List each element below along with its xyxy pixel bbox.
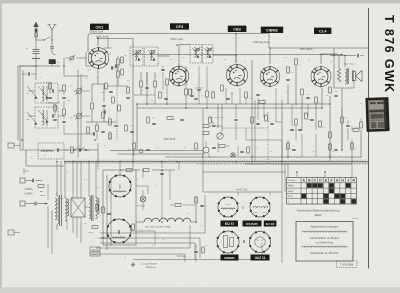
wire top rail right bbox=[296, 47, 368, 49]
wire bus drops bbox=[97, 161, 99, 170]
capacitor Cb2 bbox=[53, 118, 56, 120]
capacitor Cc2 bbox=[126, 96, 129, 98]
svg-text:1n: 1n bbox=[124, 257, 126, 259]
svg-text:3n: 3n bbox=[162, 239, 164, 241]
wire right mid bbox=[295, 66, 297, 104]
wire w1 bbox=[49, 82, 51, 94]
capacitor Cg1 bbox=[197, 88, 200, 90]
resistor Rh1 bbox=[295, 119, 298, 125]
mains plug bbox=[20, 178, 25, 183]
capacitor Ch1 bbox=[290, 128, 293, 130]
wire CK1 plate bbox=[97, 39, 99, 46]
wire x282 pair bbox=[281, 162, 283, 188]
capacitor Ca3 bbox=[226, 97, 229, 99]
resistor drop bbox=[132, 224, 135, 230]
wire bottom left verticals bbox=[47, 206, 49, 248]
wire input verticals bbox=[19, 66, 21, 150]
resistor sw3 bbox=[351, 143, 354, 149]
svg-text:160Ω: 160Ω bbox=[263, 212, 268, 214]
shielded lines box bbox=[296, 222, 353, 262]
label W08MW bbox=[221, 255, 239, 261]
wire drop B bbox=[329, 142, 331, 157]
resistor Ra7 bbox=[287, 67, 290, 73]
wire vert x147 bbox=[146, 72, 148, 104]
wire sockets frame bbox=[103, 170, 136, 245]
socket II bbox=[107, 219, 131, 243]
resistor bot1 bbox=[202, 247, 205, 253]
IF transformer 2a bbox=[190, 45, 202, 64]
label EU XI bbox=[221, 221, 239, 227]
svg-text:2n: 2n bbox=[78, 145, 80, 147]
resistor Rc2 bbox=[117, 71, 120, 77]
svg-text:Dyn.Chass.: Dyn.Chass. bbox=[344, 64, 356, 66]
wire run 2 bbox=[100, 237, 200, 239]
tube CK1 bbox=[88, 48, 109, 69]
resistor Ra2 bbox=[189, 89, 192, 95]
variable capacitor tuning 2 bbox=[76, 113, 81, 118]
svg-text:CL4: CL4 bbox=[319, 28, 327, 33]
capacitor C osc bbox=[78, 148, 80, 151]
svg-text:MW: MW bbox=[26, 119, 30, 121]
wire vert x282a bbox=[281, 100, 283, 161]
svg-text:Selbstinduktion ca. 85 pF/m: Selbstinduktion ca. 85 pF/m bbox=[310, 237, 340, 240]
svg-text:6n: 6n bbox=[182, 57, 184, 59]
wire AVC long line bbox=[88, 34, 269, 53]
svg-text:UAZ 11: UAZ 11 bbox=[255, 256, 266, 260]
resistor R7 bbox=[112, 97, 115, 103]
svg-text:„Mittel“: „Mittel“ bbox=[314, 213, 322, 217]
svg-text:1n: 1n bbox=[70, 85, 72, 87]
svg-text:1013: 1013 bbox=[88, 232, 94, 234]
resistor Ra4 bbox=[221, 85, 224, 91]
svg-text:70/80V 3mA: 70/80V 3mA bbox=[89, 29, 104, 33]
resistor Rh2 bbox=[341, 117, 344, 123]
resistor heater 2 bbox=[143, 169, 149, 172]
wire w3 bbox=[86, 65, 92, 67]
wire C/BM2 plate bbox=[269, 48, 271, 64]
socket four bbox=[250, 232, 271, 253]
resistor Rb1 bbox=[49, 83, 52, 89]
svg-text:2M: 2M bbox=[67, 100, 70, 102]
mid components bbox=[147, 117, 150, 123]
wire 8V rail bbox=[133, 259, 262, 261]
svg-text:Mittel: Mittel bbox=[288, 185, 294, 188]
resistor R6 bbox=[105, 83, 108, 89]
label KS15/25 bbox=[243, 221, 262, 227]
svg-text:1n: 1n bbox=[154, 185, 156, 187]
tube label CL4 bbox=[314, 28, 331, 34]
svg-text:Selbstindukt. ca. 220 pF/m: Selbstindukt. ca. 220 pF/m bbox=[310, 252, 338, 255]
resistor heater 1 bbox=[126, 169, 132, 172]
oscillator coils bbox=[38, 143, 64, 159]
resistor Rc3 bbox=[127, 87, 130, 93]
variable capacitor tuning 1 bbox=[76, 88, 81, 93]
wire vert x322 bbox=[321, 88, 323, 108]
capacitor Cf1 bbox=[190, 94, 193, 96]
capacitor Ch2 bbox=[346, 124, 349, 126]
left edge connector bbox=[8, 143, 14, 148]
svg-text:≈+185V: ≈+185V bbox=[98, 237, 107, 240]
svg-text:1M: 1M bbox=[230, 93, 233, 95]
svg-text:47 000 Ohm: 47 000 Ohm bbox=[212, 117, 224, 119]
resistor Ra3 bbox=[212, 92, 215, 98]
ground bottom bbox=[132, 262, 134, 264]
voltage boxes bbox=[90, 247, 100, 251]
resistor Rc1 bbox=[117, 59, 120, 65]
capacitor Cb1 bbox=[48, 96, 51, 98]
wire dashed return rail bbox=[197, 163, 368, 165]
wire w7 bbox=[162, 66, 164, 68]
svg-text:bei: bei bbox=[40, 191, 43, 193]
resistor Ra1 bbox=[159, 92, 162, 98]
wire vert pair volume bbox=[217, 104, 219, 128]
wire CK1 cathode drop bbox=[97, 68, 99, 84]
radio photo bbox=[365, 97, 389, 132]
wire w12 bbox=[257, 98, 259, 120]
IF transformer 1a bbox=[130, 47, 143, 66]
svg-text:220 V: 220 V bbox=[225, 204, 231, 206]
wire CL4 plate bbox=[320, 54, 322, 64]
IF transformer 2b bbox=[203, 45, 214, 64]
wire CB2 top bbox=[235, 54, 237, 63]
AVC dashed vertical bbox=[116, 58, 118, 140]
wire transformer drops bbox=[56, 161, 58, 196]
antenna switch bbox=[36, 39, 44, 41]
wire drop A bbox=[287, 140, 289, 157]
resistor Rf1 bbox=[185, 89, 188, 95]
wire left rail 2 bbox=[117, 153, 203, 155]
wire IF2 to CB2 bbox=[213, 54, 236, 56]
resistor sw1 bbox=[287, 143, 290, 149]
mains switch bbox=[20, 201, 25, 206]
tube CL4 bbox=[311, 67, 331, 87]
svg-text:6V 0,1A: 6V 0,1A bbox=[137, 205, 145, 208]
socket EU XI bbox=[218, 197, 238, 217]
resistor Rd1 bbox=[140, 81, 143, 87]
schematic border right bbox=[368, 8, 370, 269]
wire run 1 bbox=[100, 232, 205, 234]
volume cluster bbox=[203, 125, 209, 128]
svg-text:CK1 CF3 CL4 CB2 C/BM2: CK1 CF3 CL4 CB2 C/BM2 bbox=[145, 227, 172, 229]
wire lamp bbox=[142, 170, 144, 178]
svg-text:5n: 5n bbox=[184, 147, 186, 149]
resistor sw4 bbox=[360, 122, 363, 128]
wire under sockets bbox=[136, 185, 148, 187]
wire w8 bbox=[185, 66, 187, 89]
tube label C/BM2 bbox=[261, 27, 283, 33]
shield dashed lines bbox=[267, 112, 269, 164]
coil arrows bbox=[27, 86, 37, 98]
wire front-end bbox=[28, 90, 35, 92]
resistor column bbox=[63, 85, 66, 91]
wire IF1 to CF3 bbox=[158, 55, 170, 57]
svg-text:a 4,5 V (a): a 4,5 V (a) bbox=[236, 189, 247, 192]
svg-text:G: G bbox=[336, 179, 339, 183]
capacitor Ca4 bbox=[256, 93, 259, 95]
wire speaker assembly bbox=[330, 55, 356, 57]
grid components bbox=[121, 57, 124, 63]
wire run verticals bbox=[204, 195, 206, 233]
wire antenna feed bbox=[18, 65, 36, 67]
svg-text:-43,7V: -43,7V bbox=[111, 66, 119, 70]
svg-text:a 4501: a 4501 bbox=[352, 218, 359, 220]
capacitor Cd1 bbox=[145, 86, 148, 88]
capacitor C5 bbox=[92, 132, 94, 135]
svg-text:I: I bbox=[119, 185, 120, 191]
resistor R5 bbox=[87, 127, 90, 133]
svg-text:0,80V (a) 2mA: 0,80V (a) 2mA bbox=[253, 41, 269, 44]
svg-text:380/350: 380/350 bbox=[92, 249, 99, 251]
trimmer bbox=[70, 56, 74, 60]
midband parts bbox=[195, 143, 198, 149]
wire gang verticals bbox=[77, 70, 79, 158]
electrolytic caps bbox=[102, 207, 105, 213]
speaker bbox=[353, 72, 356, 81]
fuse bbox=[38, 185, 44, 188]
antenna 1 bbox=[35, 27, 37, 40]
midband transistor circle bbox=[203, 147, 209, 153]
svg-text:= 240V~: = 240V~ bbox=[24, 193, 34, 196]
wire sockets inner bbox=[106, 175, 108, 250]
power transformer bbox=[57, 196, 59, 224]
mid components 3 bbox=[305, 113, 308, 119]
svg-text:2n: 2n bbox=[256, 147, 258, 149]
resistor Re1 bbox=[166, 79, 169, 85]
wire under CK1 bbox=[91, 110, 93, 122]
wire switch rail 1 bbox=[165, 156, 362, 158]
svg-text:F: F bbox=[330, 179, 332, 183]
svg-text:T 876 GWK: T 876 GWK bbox=[382, 15, 396, 94]
tube label CF3 bbox=[170, 23, 189, 29]
wire right col drops bbox=[281, 140, 283, 158]
svg-text:1n: 1n bbox=[30, 157, 32, 159]
chassis bus bar bbox=[64, 161, 368, 163]
capacitor C7 bbox=[103, 110, 105, 113]
capacitor coupling bbox=[234, 118, 237, 120]
wire w15 bbox=[351, 126, 353, 130]
svg-text:bei 0,8mm Draht: bei 0,8mm Draht bbox=[316, 242, 334, 245]
socket I bbox=[109, 175, 131, 197]
midband small lamp bbox=[231, 153, 235, 157]
wire w13 bbox=[291, 104, 293, 126]
resistor Rd2 bbox=[154, 81, 157, 87]
svg-text:1M: 1M bbox=[121, 60, 124, 62]
field coil (crossed box) bbox=[71, 198, 85, 217]
svg-text:CF3: CF3 bbox=[176, 24, 184, 29]
resistor Ra5 bbox=[245, 92, 248, 98]
wire w2 bbox=[117, 56, 119, 58]
svg-text:4n: 4n bbox=[224, 59, 226, 61]
resistor Ra8 bbox=[295, 59, 298, 65]
wire switch rail 2 bbox=[245, 163, 352, 165]
svg-text:DIN-Norm: DIN-Norm bbox=[146, 266, 156, 269]
wire run 3 bbox=[100, 242, 195, 244]
resistor sw2 bbox=[329, 144, 332, 150]
svg-text:4n: 4n bbox=[270, 151, 272, 153]
svg-text:II: II bbox=[243, 239, 246, 244]
choke winding bbox=[89, 196, 91, 219]
wire run 5 bbox=[90, 253, 185, 255]
tube C/BM2 bbox=[260, 67, 280, 87]
socket three bbox=[217, 231, 239, 253]
resistor R8 bbox=[118, 105, 121, 111]
wire antenna to input bbox=[35, 65, 37, 67]
wire w16 bbox=[246, 139, 282, 141]
midband left parts bbox=[133, 143, 136, 149]
svg-text:3n: 3n bbox=[170, 59, 172, 61]
wire left rail bbox=[110, 150, 203, 152]
heater chain coils bbox=[144, 218, 191, 222]
wire B+ top rail bbox=[133, 54, 342, 56]
capacitor Cin bbox=[27, 72, 29, 75]
capacitor bot1 bbox=[194, 250, 197, 252]
svg-text:1n: 1n bbox=[244, 61, 246, 63]
wire vert x352 bbox=[351, 140, 353, 164]
svg-text:EU XX: EU XX bbox=[266, 222, 275, 226]
capacitor sw1 bbox=[292, 148, 295, 150]
svg-text:2n: 2n bbox=[186, 213, 188, 215]
capacitor sw2 bbox=[334, 148, 337, 150]
svg-text:50Hz: 50Hz bbox=[40, 195, 45, 197]
svg-text:3n: 3n bbox=[48, 107, 50, 109]
detector diode parts bbox=[251, 117, 254, 123]
wire vert x252 bbox=[251, 60, 253, 161]
wire pre-table rail bbox=[203, 171, 286, 173]
svg-text:EU XI: EU XI bbox=[225, 222, 234, 226]
resistor Ra10 bbox=[315, 97, 318, 103]
switch contacts bbox=[73, 149, 75, 151]
svg-text:6n: 6n bbox=[330, 61, 332, 63]
svg-text:≈95V 5mA: ≈95V 5mA bbox=[163, 137, 175, 141]
resistor R osc bbox=[71, 147, 74, 153]
svg-text:KS15/25: KS15/25 bbox=[246, 222, 258, 226]
mixer parts bbox=[96, 125, 99, 131]
wire osc bbox=[64, 149, 68, 151]
svg-text:235V 30mA: 235V 30mA bbox=[300, 48, 313, 51]
svg-text:C/BM2: C/BM2 bbox=[266, 28, 278, 32]
capacitor heater bbox=[160, 172, 163, 174]
wire AVC rail 1 bbox=[137, 103, 330, 105]
capacitor CK1 k bbox=[102, 104, 105, 106]
wire w6 bbox=[154, 72, 156, 81]
svg-text:CB2: CB2 bbox=[233, 26, 242, 31]
resistor CK1 k bbox=[91, 103, 94, 109]
capacitor Cc1 bbox=[110, 66, 112, 69]
junction dots bbox=[97, 37, 99, 39]
tube CB2 bbox=[226, 64, 247, 85]
wire vert x137 bbox=[136, 104, 138, 150]
wire vert x330 bbox=[329, 96, 331, 161]
svg-text:50Ω: 50Ω bbox=[253, 212, 257, 214]
svg-text:Abgeschirmte Leitungen: Abgeschirmte Leitungen bbox=[311, 225, 340, 229]
svg-text:WØ8MV: WØ8MV bbox=[224, 256, 235, 260]
potentiometer vol bbox=[217, 133, 223, 139]
wire w17 bbox=[169, 170, 171, 200]
capacitor Ce1 bbox=[161, 68, 164, 70]
capacitor Ca6 bbox=[306, 96, 309, 98]
wire vert x133 bbox=[132, 39, 134, 162]
wire left of bus bbox=[25, 150, 27, 166]
tube label CK1 bbox=[90, 24, 109, 30]
capacitor Ca5 bbox=[286, 78, 289, 80]
svg-text:2M: 2M bbox=[96, 187, 99, 189]
tube label CB2 bbox=[228, 26, 247, 32]
IF transformer 1b bbox=[145, 47, 159, 66]
svg-text:J: J bbox=[347, 179, 349, 183]
wave-switch table bbox=[287, 178, 357, 205]
wire w14 bbox=[341, 108, 343, 117]
svg-text:Gezeichnete Wellenschalterstel: Gezeichnete Wellenschalterstellung bbox=[297, 209, 340, 213]
svg-text:Lang: Lang bbox=[288, 191, 294, 193]
output transformer bbox=[337, 68, 340, 82]
wire w10 bbox=[206, 66, 208, 91]
svg-text:1M: 1M bbox=[212, 123, 215, 125]
capacitor Ca2 bbox=[194, 97, 197, 99]
wire w9 bbox=[198, 66, 200, 88]
stamp T 876 GWK bbox=[337, 261, 358, 268]
svg-text:I: I bbox=[242, 205, 243, 210]
capacitor Ca1 bbox=[164, 97, 167, 99]
svg-text:≈ 8 V (a): ≈ 8 V (a) bbox=[176, 255, 185, 258]
svg-text:4n: 4n bbox=[136, 179, 138, 181]
svg-text:T 876 GWK: T 876 GWK bbox=[340, 263, 354, 267]
dial lamp bbox=[140, 196, 146, 202]
resistor Ra6 bbox=[259, 101, 265, 104]
svg-text:220/110: 220/110 bbox=[92, 254, 98, 256]
wire vert x361 bbox=[360, 130, 362, 157]
wire heater line bbox=[120, 169, 123, 171]
wire heater chain bbox=[136, 221, 144, 223]
wire AVC rail 2 bbox=[137, 107, 322, 109]
antenna 2 coupling bbox=[51, 40, 53, 46]
svg-text:ca. 0,1µF/≈500V≈: ca. 0,1µF/≈500V≈ bbox=[140, 263, 158, 266]
junction dots bbox=[287, 156, 289, 158]
svg-text:0,86V 4mA: 0,86V 4mA bbox=[170, 37, 183, 41]
label EU XX bbox=[264, 221, 277, 227]
wire CF3 plate bbox=[178, 45, 180, 67]
resistor Rb2 bbox=[54, 105, 57, 111]
coil box L1 bbox=[35, 83, 58, 103]
svg-text:LW: LW bbox=[26, 93, 29, 95]
resistor Ra9 bbox=[301, 89, 304, 95]
wire w5 bbox=[140, 72, 142, 81]
antenna 2 (dipole) bbox=[51, 30, 53, 40]
svg-text:CK1: CK1 bbox=[95, 24, 104, 29]
resistor bot2 bbox=[175, 204, 181, 207]
wire bottom links bbox=[85, 206, 89, 208]
mid components 2 bbox=[102, 112, 105, 118]
socket KS15/25 bbox=[250, 197, 270, 217]
tube CF3 bbox=[169, 66, 188, 85]
volume pot bbox=[209, 117, 212, 123]
svg-text:1n: 1n bbox=[296, 157, 298, 159]
wire vert x342 bbox=[341, 88, 343, 150]
capacitor Ca7 bbox=[334, 94, 337, 96]
svg-text:2n: 2n bbox=[70, 117, 72, 119]
coil box L2 bbox=[35, 107, 58, 128]
wire w4 bbox=[107, 38, 109, 48]
antenna 1 trimmer bbox=[35, 40, 37, 50]
wire w11 bbox=[225, 88, 227, 104]
wire run 4 bbox=[96, 247, 190, 249]
resistor Ra11 bbox=[329, 87, 332, 93]
wire socket area bbox=[202, 150, 204, 192]
svg-text:Schalter: Schalter bbox=[288, 179, 296, 182]
label UAZ 11 bbox=[251, 255, 270, 261]
resistor bleeder bbox=[92, 226, 98, 229]
resistor Rg1 bbox=[206, 91, 209, 97]
resistor Rh3 bbox=[353, 129, 359, 132]
